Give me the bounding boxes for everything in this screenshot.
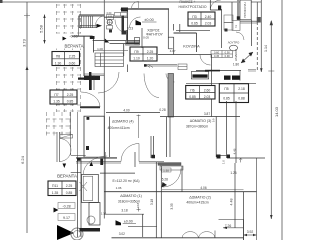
svg-text:3.18: 3.18 xyxy=(136,202,140,208)
thick wall sw corner xyxy=(80,106,100,108)
svg-text:Ε=112.20 m² (ΚΔ): Ε=112.20 m² (ΚΔ) xyxy=(113,179,140,183)
svg-text:1.06: 1.06 xyxy=(116,186,122,190)
wall y=191.7 xyxy=(104,191,256,193)
svg-text:2.25: 2.25 xyxy=(69,54,76,58)
svg-text:0.88: 0.88 xyxy=(238,96,245,100)
right boundary wall line B xyxy=(260,0,262,72)
corridor wall left stub xyxy=(71,172,81,174)
bottom wall room2 xyxy=(112,237,244,239)
svg-text:3.92: 3.92 xyxy=(247,230,254,234)
svg-text:3.73: 3.73 xyxy=(22,38,27,47)
svg-text:1.30: 1.30 xyxy=(55,61,62,65)
svg-text:3.02: 3.02 xyxy=(119,232,125,236)
svg-text:4.48: 4.48 xyxy=(230,199,234,206)
right boundary wall line A xyxy=(256,2,258,22)
svg-text:5.28: 5.28 xyxy=(162,177,168,181)
stairs treads xyxy=(80,16,93,28)
white band behind veranda label xyxy=(55,34,82,49)
svg-text:3.35: 3.35 xyxy=(170,203,174,209)
dark block on right wall xyxy=(257,17,261,23)
svg-text:2.25: 2.25 xyxy=(147,50,154,54)
room4 west wall inner line xyxy=(109,117,111,158)
wall stub hall east xyxy=(127,65,129,73)
room2 right wall xyxy=(243,192,245,240)
svg-text:2.25: 2.25 xyxy=(66,184,73,188)
table T4 xyxy=(186,86,215,100)
dark wall tip xyxy=(237,16,240,20)
room1 bottom wall xyxy=(104,213,144,215)
svg-text:ΛΟΥΤΡΟ: ΛΟΥΤΡΟ xyxy=(228,41,240,45)
porch dark marks xyxy=(122,31,127,35)
svg-text:0.85: 0.85 xyxy=(66,191,73,195)
svg-text:1.00: 1.00 xyxy=(97,47,103,51)
window dark bar right xyxy=(224,76,231,80)
hall dark wall bar xyxy=(84,76,100,80)
site boundary left vertical line xyxy=(26,2,28,233)
prosopsi box with rotated text xyxy=(240,0,251,20)
svg-text:0.85: 0.85 xyxy=(223,96,230,100)
vertical x=243.5 bottom xyxy=(243,219,245,240)
door arc room2 xyxy=(163,169,181,188)
kitchen counter dark bar xyxy=(191,72,208,79)
tree scribble 2 xyxy=(87,216,95,224)
svg-text:2.40: 2.40 xyxy=(205,15,212,19)
arrow on left boundary xyxy=(26,66,29,70)
wall y=43.6 xyxy=(110,43,133,45)
dim line 7.26 xyxy=(223,227,244,229)
svg-text:1.10: 1.10 xyxy=(133,57,140,61)
svg-text:1.0: 1.0 xyxy=(222,160,226,164)
hall wall verticals xyxy=(92,76,95,91)
table T11 xyxy=(178,64,187,70)
svg-text:-0.28: -0.28 xyxy=(62,204,70,208)
wall below stairs xyxy=(72,35,93,37)
wc block east wall xyxy=(232,2,252,46)
svg-text:ΠΛΑΚΕΣ +: ΠΛΑΚΕΣ + xyxy=(179,0,195,4)
svg-text:400cm×411cm: 400cm×411cm xyxy=(108,126,130,130)
wall y=173 room1 top xyxy=(100,172,135,174)
svg-text:0.85: 0.85 xyxy=(67,100,74,104)
veranda double door arcs xyxy=(60,139,71,151)
veranda paving hatch lower xyxy=(46,112,70,138)
svg-text:0.60: 0.60 xyxy=(214,51,220,55)
lines bottom left room xyxy=(128,226,157,228)
table T7 xyxy=(48,181,76,196)
vertical x=256.5 bottom xyxy=(256,158,258,240)
elevation -0.28 box xyxy=(58,203,75,209)
bottom right plot line xyxy=(219,218,244,220)
dark mark wc xyxy=(225,29,228,32)
svg-text:2.60: 2.60 xyxy=(204,88,211,92)
dimension 3.92 bottom right xyxy=(244,234,257,236)
svg-text:318cm×335cm: 318cm×335cm xyxy=(118,199,141,203)
corner mark xyxy=(0,0,3,3)
kitchen top wall right segment xyxy=(210,0,221,10)
wall y=155.3 veranda bottom xyxy=(71,154,86,156)
door panel xyxy=(60,135,73,139)
svg-text:4.07: 4.07 xyxy=(170,49,176,53)
west wall of hall xyxy=(83,36,85,76)
dark door jamb xyxy=(218,6,221,11)
entrance elevation triangle xyxy=(105,39,110,43)
shower boxes xyxy=(224,15,233,23)
svg-text:2.25: 2.25 xyxy=(67,93,74,97)
bath room outline xyxy=(89,203,100,226)
svg-text:0.90: 0.90 xyxy=(225,54,231,58)
svg-text:6.24: 6.24 xyxy=(20,155,25,164)
dark block wall end xyxy=(90,36,95,39)
svg-text:Π3: Π3 xyxy=(192,15,196,19)
stairs top rail xyxy=(79,15,105,17)
svg-text:1.80: 1.80 xyxy=(233,62,239,66)
wc door arc xyxy=(236,32,244,40)
hall double door arcs xyxy=(98,72,119,93)
stairs bottom rail xyxy=(79,27,97,29)
kitchen south wall xyxy=(158,54,212,56)
top wall right of line xyxy=(104,16,128,18)
right wall x=235 lower xyxy=(234,163,236,228)
svg-text:5.58: 5.58 xyxy=(39,24,44,33)
wall x=128 vertical xyxy=(127,9,129,44)
svg-text:387cm×380cm: 387cm×380cm xyxy=(186,124,209,128)
dimension line 14.03 xyxy=(270,21,272,219)
svg-text:ΔΩΜΑΤΙΟ (2): ΔΩΜΑΤΙΟ (2) xyxy=(189,195,211,199)
svg-text:2.03: 2.03 xyxy=(204,95,211,99)
kitchen east wall xyxy=(211,55,213,117)
svg-text:1.14: 1.14 xyxy=(264,45,268,52)
svg-text:±0.00: ±0.00 xyxy=(144,18,153,22)
porch box2 xyxy=(107,26,113,30)
svg-text:Π5: Π5 xyxy=(224,87,228,91)
door arc top right xyxy=(210,0,221,10)
svg-text:0.9: 0.9 xyxy=(212,118,216,122)
svg-text:14.03: 14.03 xyxy=(274,106,279,117)
small dim arrow right xyxy=(239,158,242,162)
svg-text:3.18: 3.18 xyxy=(150,199,154,205)
vertical wall x=168.3 xyxy=(167,9,169,48)
table T1 xyxy=(52,52,80,66)
svg-text:ΒΕΡΑΝΤΑ: ΒΕΡΑΝΤΑ xyxy=(57,174,77,179)
bath south dark bar xyxy=(80,228,101,232)
svg-text:3.18: 3.18 xyxy=(121,209,127,213)
street line x=282 xyxy=(281,0,283,240)
svg-text:0.45: 0.45 xyxy=(214,54,220,58)
dimension line 5.58 xyxy=(44,15,46,44)
svg-text:0.23: 0.23 xyxy=(127,27,133,31)
elevation marker up xyxy=(90,162,94,167)
room4 door arc xyxy=(121,144,139,162)
tree scribble 1 xyxy=(71,228,83,240)
svg-text:0.90: 0.90 xyxy=(225,51,231,55)
svg-text:4.46: 4.46 xyxy=(232,148,236,154)
wall y=40.5 xyxy=(93,40,140,42)
stairs direction arrow xyxy=(80,25,98,27)
interior door arc with leaf xyxy=(130,17,141,28)
table T3 xyxy=(130,47,157,61)
door arc top entry xyxy=(132,1,139,8)
wall y=112.5 room4 top xyxy=(106,112,160,114)
closet dark caps xyxy=(86,146,89,150)
stub at its foot xyxy=(168,48,172,50)
dark cap on wall xyxy=(152,155,156,159)
dark block end of wall xyxy=(144,64,147,66)
table T5 xyxy=(219,84,248,103)
dark block top of bath wall xyxy=(77,158,81,161)
ticks at y=70 right side xyxy=(248,70,256,72)
svg-text:ΗΛΙΑΚΟΣ: ΗΛΙΑΚΟΣ xyxy=(234,49,238,61)
hall top wall double xyxy=(84,74,104,76)
svg-text:ΔΩΜΑΤΙΟ (3): ΔΩΜΑΤΙΟ (3) xyxy=(190,119,212,123)
site boundary top line xyxy=(0,1,261,3)
svg-text:±0.00: ±0.00 xyxy=(124,219,133,223)
hatch small xyxy=(146,65,154,68)
svg-text:Π6: Π6 xyxy=(190,88,194,92)
vertical wall x=142 xyxy=(141,28,143,48)
svg-text:Π9: Π9 xyxy=(134,50,138,54)
wall y=70.5 right xyxy=(196,70,241,72)
table T2 xyxy=(50,90,77,104)
grey wall strip xyxy=(237,0,239,20)
porch east wall lower xyxy=(123,44,125,56)
porch east wall band xyxy=(122,16,125,35)
svg-text:0.28: 0.28 xyxy=(159,108,165,112)
vertical dim line x=138.5 xyxy=(137,115,141,139)
north arrow black triangle xyxy=(57,225,74,240)
top wall y=8.4/9.4 xyxy=(123,8,169,9)
right boundary dashed segment xyxy=(256,22,258,70)
room1 right wall double xyxy=(151,136,154,158)
stairs left edge xyxy=(78,16,80,36)
svg-text:ΗΛΕΚΤΡΟΣΤΑΣΙΟ: ΗΛΕΚΤΡΟΣΤΑΣΙΟ xyxy=(178,5,206,9)
porch dark blob xyxy=(109,30,112,33)
corner diagonal marks xyxy=(241,52,253,63)
porch corner box xyxy=(135,38,140,45)
svg-text:1.30: 1.30 xyxy=(101,212,107,216)
svg-text:2.03: 2.03 xyxy=(205,22,212,26)
kitchen top wall y=30.4 xyxy=(176,29,210,31)
veranda lower right edge xyxy=(71,112,78,158)
svg-text:1.35: 1.35 xyxy=(53,100,60,104)
svg-text:ΔΩΜΑΤΙΟ (1): ΔΩΜΑΤΙΟ (1) xyxy=(120,194,142,198)
door arc kitchen xyxy=(200,55,211,66)
elevation marker -0.03 xyxy=(63,37,67,41)
door X symbol xyxy=(80,182,88,191)
right wall room3 xyxy=(227,101,237,163)
corridor door arc xyxy=(166,74,175,83)
svg-text:4.06: 4.06 xyxy=(200,186,206,190)
svg-text:Π11: Π11 xyxy=(52,184,58,188)
wall line y=50.5 xyxy=(93,50,128,52)
stair room west wall xyxy=(93,36,95,52)
bath block left walls xyxy=(78,158,82,237)
svg-text:ΔΩΜΑΤΙΟ (4): ΔΩΜΑΤΙΟ (4) xyxy=(112,119,134,123)
veranda door frame xyxy=(57,132,60,162)
door leaf triangle xyxy=(136,20,142,25)
svg-text:ΚΟΥΖΙΝΑ: ΚΟΥΖΙΝΑ xyxy=(183,45,200,49)
parallel wall line x=105.7 xyxy=(105,152,107,214)
porch small table T10 xyxy=(107,12,114,20)
bottom window arcs xyxy=(182,232,199,238)
svg-text:2.18: 2.18 xyxy=(238,87,245,91)
bath door arc xyxy=(83,156,107,174)
porch column circle xyxy=(107,20,112,25)
interior wall band vertical (0.28) xyxy=(168,74,174,118)
svg-text:3.87: 3.87 xyxy=(204,112,210,116)
wall cross left xyxy=(78,77,96,79)
svg-text:1.26: 1.26 xyxy=(230,171,236,175)
svg-text:Π7: Π7 xyxy=(54,93,58,97)
wash basin oval xyxy=(230,45,238,51)
closet bath xyxy=(82,174,99,202)
elevation pm0.00 bottom xyxy=(116,220,122,225)
svg-text:0.65: 0.65 xyxy=(191,22,198,26)
svg-text:0.05: 0.05 xyxy=(143,35,149,39)
porch door arc xyxy=(115,20,127,34)
kitchen right wall with hatch xyxy=(221,9,223,48)
top wall left segment xyxy=(79,15,104,16)
svg-text:400cm×415cm: 400cm×415cm xyxy=(186,201,209,205)
dim 4.06 xyxy=(162,189,244,191)
kitchen nw walls xyxy=(174,32,197,34)
wall x=142.7 bottom xyxy=(142,214,144,237)
svg-text:1.35: 1.35 xyxy=(52,191,59,195)
wall y=158 right segment xyxy=(217,155,265,158)
elevation 9.17 box xyxy=(58,214,75,221)
wall band y=157-163 xyxy=(76,157,117,158)
dark corner top xyxy=(121,8,129,10)
small table T9 xyxy=(211,51,233,59)
wall y=64.5/66 xyxy=(144,65,177,67)
room4 west bay xyxy=(84,116,104,157)
table T6 xyxy=(188,12,215,26)
dark sliding door bar xyxy=(126,42,140,46)
closet divider room3 xyxy=(215,117,217,158)
arrowhead on line B xyxy=(260,68,263,72)
wall stub x=135 xyxy=(134,152,136,167)
site line x=104 xyxy=(103,0,105,219)
svg-text:1.20: 1.20 xyxy=(147,57,154,61)
small box with 2 xyxy=(232,21,240,31)
elevation marker down xyxy=(63,164,67,169)
svg-text:9.17: 9.17 xyxy=(63,216,70,220)
veranda paving hatch upper xyxy=(56,4,81,112)
svg-text:2: 2 xyxy=(235,25,237,29)
door arc dining left xyxy=(144,74,159,98)
dark block wall corner xyxy=(227,155,230,159)
white band behind veranda label2 xyxy=(52,172,80,178)
svg-text:0.60: 0.60 xyxy=(69,61,76,65)
wall double y=21.2/23 xyxy=(232,21,257,23)
furniture bed xyxy=(95,53,124,67)
closet side wall xyxy=(181,166,183,192)
svg-text:Π8: Π8 xyxy=(56,54,60,58)
dark wall block xyxy=(100,159,103,166)
small table T12 xyxy=(115,13,128,17)
stair door arc xyxy=(95,16,104,28)
svg-text:0.85: 0.85 xyxy=(189,95,196,99)
svg-text:ΠΡΟΣΟΨΗ: ΠΡΟΣΟΨΗ xyxy=(243,2,247,17)
svg-text:4.00: 4.00 xyxy=(123,109,129,113)
svg-text:1:30: 1:30 xyxy=(163,168,169,172)
svg-text:ΒΕΡΑΝΤΑ: ΒΕΡΑΝΤΑ xyxy=(65,44,84,49)
tick on left boundary xyxy=(24,13,30,18)
wall y=116.5 room3 top xyxy=(160,116,240,118)
label 1.30 xyxy=(162,168,172,172)
closet dark bar between rooms xyxy=(158,163,181,166)
